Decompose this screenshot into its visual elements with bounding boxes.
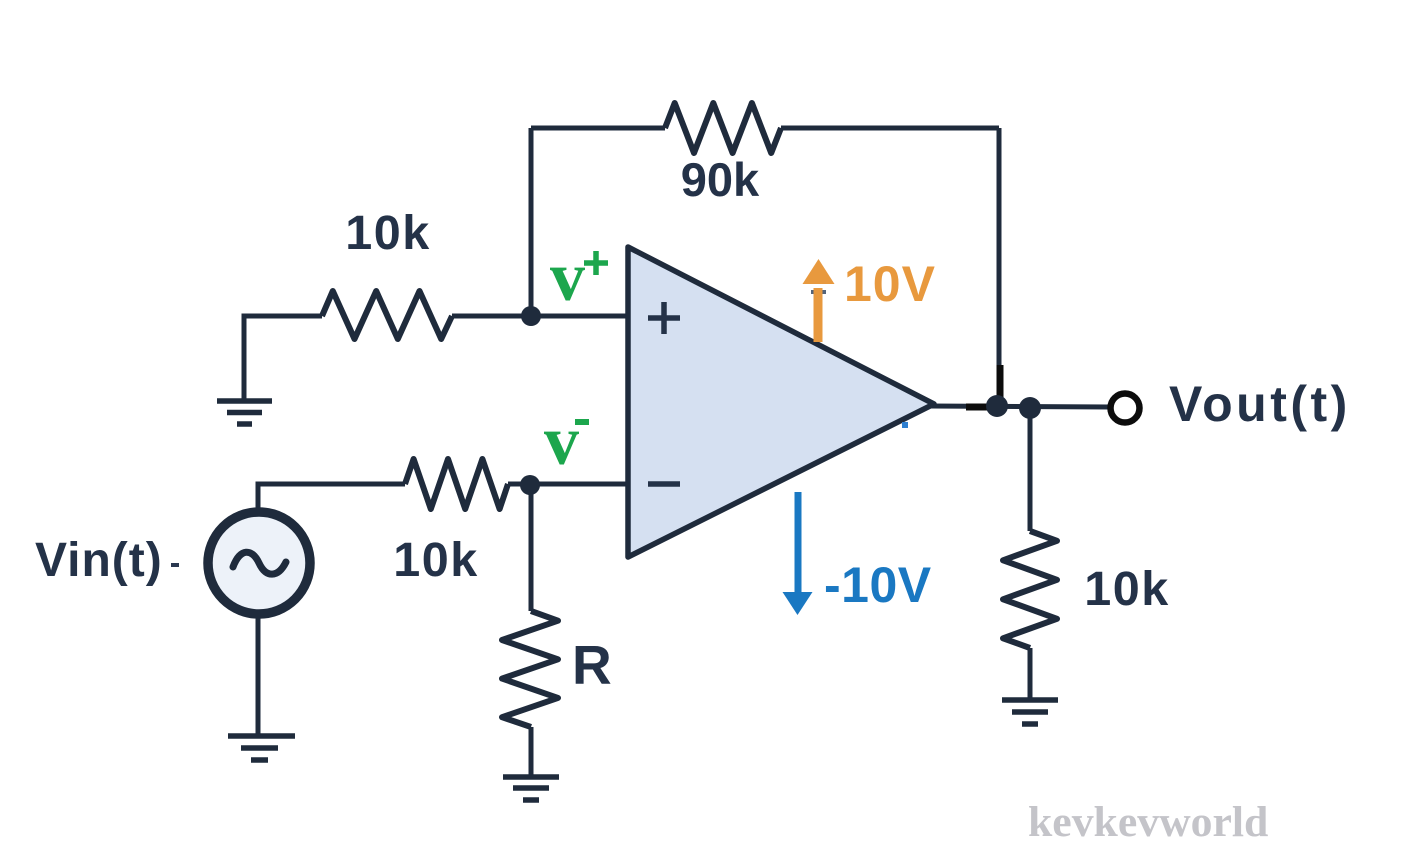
resistor R_f 90k (665, 103, 781, 153)
svg-text:v: v (544, 403, 579, 480)
svg-text:10k: 10k (393, 533, 478, 587)
op-amp U1 (628, 247, 934, 557)
artifact blue mark under apex (902, 422, 908, 428)
node label V+ (green) (550, 239, 608, 316)
resistor R (V- to ground) (502, 611, 558, 727)
sine symbol inside source (233, 552, 286, 574)
wire: output node down to load resistor (1028, 408, 1033, 531)
wire: feedback right vertical down to output node (997, 128, 1002, 406)
resistor R3 10k (load) (1003, 531, 1057, 648)
wire: black overlay on output wire (966, 404, 990, 411)
svg-text:Vout(t): Vout(t) (1169, 376, 1351, 432)
wire: R1 to V+ node and into op-amp (452, 314, 629, 319)
ground (below load) (1002, 700, 1058, 724)
wire: R2 to V- node into op-amp (508, 482, 629, 487)
node label V- (green) (544, 403, 589, 480)
node: output junction dot A (986, 395, 1008, 417)
wire: V+ node up to feedback top (529, 128, 534, 317)
source V_in sine generator (208, 512, 310, 614)
node V- junction dot (520, 475, 540, 495)
artifact dash after Vin(t) (171, 563, 179, 567)
svg-text:90k: 90k (681, 153, 760, 206)
ground (below Vin source) (228, 736, 295, 760)
svg-text:v: v (550, 239, 585, 316)
op-amp - input symbol (648, 481, 680, 487)
supply arrow +10V (orange) (803, 256, 936, 342)
resistor R1 10k (to V+) (322, 291, 452, 339)
wire: op-amp output to terminal (930, 406, 1110, 407)
resistor R2 10k (to V-) (405, 459, 508, 509)
ground (below R) (503, 777, 559, 800)
ground (top-left, R1) (217, 401, 272, 424)
svg-text:-10V: -10V (824, 557, 932, 613)
wire: source bottom to ground (256, 617, 261, 736)
output terminal (open circle) (1111, 394, 1140, 423)
svg-text:R: R (572, 634, 612, 696)
svg-text:10V: 10V (844, 256, 936, 312)
wire: R down to ground (529, 727, 534, 776)
wire: V- node down to resistor R (529, 485, 534, 611)
svg-text:10k: 10k (1084, 562, 1169, 616)
supply arrow -10V (blue) (783, 492, 932, 615)
wire: feedback top horizontal right segment (781, 126, 999, 131)
svg-text:Vin(t): Vin(t) (35, 534, 163, 587)
wire: feedback top horizontal left segment (531, 126, 665, 131)
wire: source top to input lead (258, 484, 405, 509)
node V+ junction dot (521, 306, 541, 326)
svg-text:10k: 10k (345, 206, 430, 260)
wire: black overlay on feedback vertical near node (997, 365, 1004, 400)
node: output junction dot B (1019, 397, 1041, 419)
op-amp + input symbol (648, 302, 680, 334)
wire: load resistor down to ground (1028, 648, 1033, 700)
svg-text:kevkevworld: kevkevworld (1028, 798, 1268, 846)
wire: ground up to R1 lead (244, 316, 322, 401)
